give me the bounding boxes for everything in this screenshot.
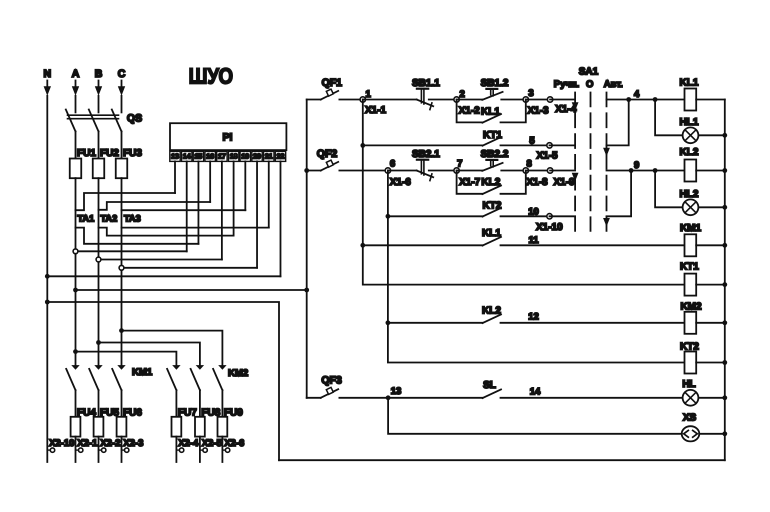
node C tap bbox=[119, 265, 124, 270]
wire: KL2 coil to return bus bbox=[696, 170, 725, 172]
socket XS bbox=[682, 413, 700, 442]
wire: phase B vertical (FU2 to KM1 contact) bbox=[98, 178, 100, 365]
PI terminal 19 bbox=[240, 151, 250, 161]
wire: SB2.2 to node8 bbox=[501, 170, 526, 172]
svg-text:SB2.1: SB2.1 bbox=[412, 149, 440, 160]
svg-text:17: 17 bbox=[218, 154, 226, 161]
svg-text:KM2: KM2 bbox=[680, 301, 702, 312]
fuse FU4 bbox=[71, 408, 97, 437]
junction B branch bbox=[96, 340, 101, 345]
contactor KM1 main contact pole 2 bbox=[89, 365, 103, 417]
svg-text:KM1: KM1 bbox=[132, 367, 153, 378]
time relay coil KT1 bbox=[680, 262, 699, 296]
wire: B to KM2 pole 2 bbox=[99, 343, 200, 366]
node B tap bbox=[96, 257, 101, 262]
svg-text:13: 13 bbox=[171, 154, 179, 161]
svg-text:TA1: TA1 bbox=[78, 213, 95, 223]
svg-text:X1-9: X1-9 bbox=[554, 177, 576, 188]
node A tap bbox=[73, 249, 78, 254]
wire: node13 to SL bbox=[388, 397, 482, 399]
wire: KL1 row left bbox=[363, 244, 483, 246]
svg-text:ШУО: ШУО bbox=[189, 63, 234, 88]
wire: SB1.2 to node3 bbox=[501, 99, 526, 101]
svg-text:SB1.2: SB1.2 bbox=[481, 78, 509, 89]
contactor KM2 main contact pole 1 bbox=[167, 365, 181, 417]
wire: C between QS and FU3 bbox=[121, 131, 123, 158]
junction HL1-bus bbox=[722, 133, 727, 138]
wire: PI terminal 17 drop bbox=[221, 161, 223, 259]
wire: KL2 contact to KM2 coil, node 12 bbox=[501, 322, 685, 324]
lamp HL1 bbox=[680, 117, 699, 143]
wire: node13 drop to XS row bbox=[388, 398, 682, 434]
relay contact KT2 (NO) bbox=[483, 200, 502, 216]
wire: SB2.1 to node7 bbox=[429, 170, 457, 172]
svg-text:FU1: FU1 bbox=[77, 148, 96, 159]
svg-text:X1-8: X1-8 bbox=[527, 177, 549, 188]
wire: C to KM2 pole 3 bbox=[122, 331, 223, 366]
svg-text:18: 18 bbox=[230, 154, 238, 161]
relay contact KT1 (NO) bbox=[483, 130, 503, 146]
junction KT2-bus bbox=[722, 360, 727, 365]
SA1 contact arrow row5 pos3 bbox=[603, 148, 610, 157]
wire: KT2 coil to return bus bbox=[696, 362, 725, 364]
wire: node6 drop to KL2 row bbox=[387, 216, 389, 322]
SA1 contact arrow row10 pos3 bbox=[603, 218, 610, 227]
wire: PI terminal 20 drop bbox=[256, 161, 258, 267]
wire: PI terminal 22 drop bbox=[279, 161, 281, 276]
svg-text:X1-7: X1-7 bbox=[459, 177, 481, 188]
relay contact KL2 self-hold (bypass row 2) bbox=[457, 171, 526, 195]
SA1 position line 3 (Avt) bbox=[606, 93, 608, 231]
SA1 contact arrow row2 pos1 bbox=[572, 173, 579, 182]
SA1 position line 2 (O) bbox=[590, 93, 592, 231]
svg-text:KL2: KL2 bbox=[482, 305, 501, 316]
wire: PI terminal 19 drop bbox=[244, 161, 246, 210]
lamp HL2 bbox=[680, 189, 699, 215]
wire: node2 to SB1.2 bbox=[457, 99, 483, 101]
svg-text:8: 8 bbox=[527, 159, 532, 170]
svg-text:22: 22 bbox=[277, 154, 285, 161]
svg-text:KL1: KL1 bbox=[482, 228, 501, 239]
relay coil KL2 bbox=[680, 147, 699, 181]
svg-text:FU2: FU2 bbox=[100, 148, 119, 159]
junction 9b bbox=[653, 168, 658, 173]
input line A label and arrow bbox=[72, 68, 80, 96]
svg-text:KL1: KL1 bbox=[481, 106, 500, 117]
junction 9a bbox=[629, 168, 634, 173]
SA1 position line 1 (Ruchn) bbox=[574, 93, 576, 231]
node X1-9 bbox=[547, 168, 575, 188]
node 2 / X1-2 bbox=[454, 89, 480, 117]
relay contact KL2 (NO) bbox=[482, 305, 501, 323]
svg-text:7: 7 bbox=[457, 159, 462, 170]
junction HL-bus bbox=[722, 395, 727, 400]
terminal X2-4 bbox=[176, 437, 199, 462]
svg-text:14: 14 bbox=[183, 154, 191, 161]
wire: node6 to SB2.1 bbox=[388, 170, 417, 172]
wire: PI terminal 18 drop bbox=[233, 161, 235, 235]
svg-text:X1-3: X1-3 bbox=[528, 105, 550, 116]
wire: node1 drop to KL1 row bbox=[362, 145, 364, 245]
svg-text:10: 10 bbox=[528, 206, 539, 217]
svg-text:XS: XS bbox=[683, 413, 697, 424]
wire: KL1 contact to KM1 coil, node 11 bbox=[501, 244, 685, 246]
svg-text:A: A bbox=[72, 68, 80, 80]
wire: node8 to X1-9 bbox=[526, 170, 550, 172]
wire: node6 vertical drop bbox=[387, 171, 389, 217]
wire: phase C vertical upper bbox=[121, 96, 123, 113]
svg-text:19: 19 bbox=[241, 154, 249, 161]
node 7 / X1-7 bbox=[454, 159, 481, 188]
wire: SB1.1 to node2 bbox=[429, 99, 457, 101]
PI terminal 21 bbox=[264, 151, 274, 161]
junction HL2-bus bbox=[722, 205, 727, 210]
svg-text:QF2: QF2 bbox=[317, 148, 338, 160]
wire: PI terminal 16 drop bbox=[209, 161, 211, 202]
terminal X2-10 bbox=[47, 438, 74, 452]
svg-text:PI: PI bbox=[223, 131, 233, 143]
svg-text:4: 4 bbox=[634, 89, 640, 100]
contactor coil KM1 bbox=[680, 223, 702, 256]
svg-text:TA2: TA2 bbox=[101, 213, 118, 223]
terminal X2-1 bbox=[76, 437, 99, 462]
wire: N line vertical bbox=[46, 96, 48, 462]
PI terminal 16 bbox=[205, 151, 215, 161]
wire: node3 to X1-4 bbox=[526, 99, 550, 101]
circuit breaker QF1 bbox=[307, 77, 363, 100]
wire: KT1 row left bbox=[363, 144, 483, 146]
svg-text:14: 14 bbox=[530, 387, 541, 398]
junction XS-bus bbox=[722, 431, 727, 436]
svg-text:KL2: KL2 bbox=[481, 177, 500, 188]
svg-text:KM2: KM2 bbox=[228, 368, 248, 379]
input line C label and arrow bbox=[118, 68, 126, 96]
current transformer TA3 secondary bottom (to terminal 21) bbox=[122, 227, 269, 229]
wire: KT1 coil to return bus bbox=[696, 284, 725, 286]
svg-text:HL1: HL1 bbox=[680, 117, 699, 128]
current transformer TA2 secondary bottom (to terminal 18) bbox=[99, 228, 234, 236]
svg-text:SB2.2: SB2.2 bbox=[481, 149, 509, 160]
svg-text:9: 9 bbox=[634, 160, 639, 171]
svg-text:N: N bbox=[44, 68, 52, 80]
contactor KM2 main contact pole 3 bbox=[213, 365, 227, 417]
terminal X2-2 bbox=[99, 437, 121, 462]
wire: B voltage tap to terminal 17 bbox=[99, 259, 222, 261]
svg-text:KT1: KT1 bbox=[680, 262, 699, 273]
pushbutton SB1.1 (NC stop) bbox=[412, 78, 440, 110]
fuse FU8 bbox=[195, 408, 221, 437]
svg-text:FU9: FU9 bbox=[224, 408, 243, 419]
wire: X1-9 to SA1 bbox=[550, 170, 575, 172]
node 10 / X1-10 bbox=[528, 206, 563, 233]
pushbutton SB2.2 (NO start) bbox=[481, 149, 509, 171]
pushbutton SB1.2 (NO start) bbox=[481, 78, 509, 100]
wire: KM1 coil to return bus bbox=[696, 244, 725, 246]
pushbutton SB2.1 (NC stop) bbox=[412, 149, 440, 181]
PI terminal 17 bbox=[217, 151, 227, 161]
disconnect switch QS (3-pole) bbox=[66, 110, 142, 132]
svg-text:X1-10: X1-10 bbox=[536, 222, 563, 233]
time relay coil KT2 bbox=[680, 341, 699, 373]
PI terminal 18 bbox=[228, 151, 238, 161]
wire: A voltage tap to terminal 14 bbox=[76, 250, 187, 252]
junction node1-KT1 row bbox=[360, 143, 365, 148]
relay contact KL1 (NO) bbox=[482, 228, 501, 246]
svg-text:KT1: KT1 bbox=[483, 130, 502, 141]
svg-text:12: 12 bbox=[528, 311, 539, 322]
wire: KL1 coil to return bus bbox=[696, 99, 725, 101]
svg-text:5: 5 bbox=[529, 135, 535, 146]
svg-text:C: C bbox=[118, 68, 126, 80]
wire: X1-4 to SA1 bbox=[550, 99, 575, 101]
wire: SA1 row9-row10 link bbox=[607, 171, 632, 217]
svg-text:15: 15 bbox=[195, 154, 203, 161]
wire: phase A vertical upper (arrow to QS) bbox=[75, 96, 77, 113]
wire: bottom neutral rail bbox=[279, 459, 725, 461]
svg-text:Авт.: Авт. bbox=[604, 79, 623, 90]
wire: SL to HL lamp, node 14 bbox=[501, 397, 683, 399]
svg-text:16: 16 bbox=[206, 154, 214, 161]
terminal X2-5 bbox=[200, 437, 223, 462]
svg-text:Ручн.: Ручн. bbox=[554, 79, 580, 90]
contactor KM1 main contact pole 1 bbox=[66, 365, 80, 417]
junction bus-QF2 bbox=[304, 168, 309, 173]
contactor KM1 main contact pole 3 bbox=[112, 365, 126, 417]
svg-text:HL: HL bbox=[682, 379, 695, 390]
svg-text:KM1: KM1 bbox=[680, 223, 702, 234]
svg-text:FU6: FU6 bbox=[123, 408, 142, 419]
wire: PI terminal 13 drop bbox=[174, 161, 176, 193]
svg-text:X1-6: X1-6 bbox=[390, 177, 412, 188]
wire: HL1 to return bus bbox=[698, 134, 724, 136]
wire: A to KM2 pole 1 bbox=[76, 352, 177, 366]
contactor coil KM2 bbox=[680, 301, 702, 333]
fuse FU5 bbox=[94, 408, 120, 437]
wire: N bus to terminal 22 bbox=[47, 275, 280, 277]
svg-text:TA3: TA3 bbox=[124, 213, 141, 223]
svg-text:QF1: QF1 bbox=[322, 77, 343, 89]
limit switch contact SL bbox=[483, 380, 502, 398]
lamp HL bbox=[682, 379, 698, 405]
wire: return bus vertical bbox=[724, 100, 726, 461]
junction KL1 row bbox=[360, 243, 365, 248]
wire: phase A feed to control bus bbox=[76, 289, 307, 291]
svg-text:HL2: HL2 bbox=[680, 189, 699, 200]
selector switch SA1 labels bbox=[554, 67, 623, 91]
circuit breaker QF3 bbox=[307, 375, 388, 398]
junction N-loop bbox=[45, 300, 50, 305]
wire: node5 to SA1 bbox=[550, 144, 576, 146]
contactor KM2 main contact pole 2 bbox=[191, 365, 205, 417]
wire: KT1 contact to node 5 bbox=[501, 144, 550, 146]
junction 4b bbox=[653, 97, 658, 102]
SA1 contact arrow row1 pos1 bbox=[572, 102, 579, 111]
junction control bus feed bbox=[304, 288, 309, 293]
current transformer TA2 secondary top (to terminal 16) bbox=[99, 202, 211, 210]
svg-text:1: 1 bbox=[366, 89, 372, 100]
svg-text:13: 13 bbox=[391, 386, 402, 397]
current transformer TA1 secondary top (to terminal 13) bbox=[76, 193, 176, 210]
junction 4a bbox=[626, 97, 631, 102]
relay contact KL1 self-hold (bypass row 1) bbox=[457, 100, 526, 123]
junction C branch bbox=[119, 328, 124, 333]
svg-text:KL1: KL1 bbox=[680, 78, 699, 89]
wire: HL to return bus bbox=[698, 397, 724, 399]
meter PI box bbox=[170, 123, 286, 150]
PI terminal 20 bbox=[252, 151, 262, 161]
svg-text:B: B bbox=[95, 68, 103, 80]
input line N label and arrow bbox=[44, 68, 52, 96]
node 3 / X1-3 bbox=[523, 88, 549, 116]
wire: HL1 branch bbox=[655, 100, 683, 136]
svg-text:QF3: QF3 bbox=[321, 375, 342, 387]
svg-text:21: 21 bbox=[265, 154, 273, 161]
fuse FU7 bbox=[172, 408, 198, 437]
svg-text:11: 11 bbox=[528, 235, 539, 246]
wire: SA1 row4-row5 link bbox=[607, 100, 629, 146]
wire: SA1 to KL1 coil (node 4 row) bbox=[607, 99, 685, 101]
wire: phase B vertical upper bbox=[98, 96, 100, 113]
wire: C voltage tap to terminal 20 bbox=[122, 267, 258, 269]
wire: KL2 row drop to KT2 coil row bbox=[388, 323, 685, 363]
fuse FU9 bbox=[218, 408, 244, 437]
svg-text:QS: QS bbox=[127, 112, 142, 124]
node 13 bbox=[386, 386, 402, 400]
fuse FU2 bbox=[93, 148, 120, 178]
wire: PI terminal 15 drop bbox=[197, 161, 199, 243]
svg-text:SB1.1: SB1.1 bbox=[412, 78, 440, 89]
svg-text:X1-2: X1-2 bbox=[459, 105, 481, 116]
terminal X2-6 bbox=[222, 437, 244, 462]
fuse FU1 bbox=[70, 148, 97, 178]
wire: A between QS and FU1 bbox=[75, 131, 77, 158]
wire: KL1 row drop to KT1 coil row bbox=[363, 245, 685, 284]
fuse FU3 bbox=[116, 148, 143, 178]
wire: KL2 row left bbox=[388, 322, 483, 324]
svg-text:О: О bbox=[586, 79, 593, 90]
terminal X2-3 bbox=[122, 437, 144, 462]
node 6 / X1-6 bbox=[385, 159, 411, 188]
junction node6-KT2 row bbox=[386, 214, 391, 219]
wire: node1 vertical drop bbox=[362, 100, 364, 146]
node 5 / X1-5 bbox=[529, 135, 558, 161]
current transformer TA1 secondary bottom (to terminal 15) bbox=[76, 228, 199, 244]
PI terminal 22 bbox=[275, 151, 285, 161]
junction KL2 row bbox=[386, 320, 391, 325]
current transformer TA3 secondary top (to terminal 19) bbox=[122, 209, 246, 211]
node 1 / X1-1 bbox=[360, 89, 386, 116]
input line B label and arrow bbox=[95, 68, 103, 96]
node X1-4 bbox=[547, 97, 576, 115]
fuse FU6 bbox=[117, 408, 143, 437]
PI terminal 15 bbox=[193, 151, 203, 161]
svg-text:20: 20 bbox=[253, 154, 261, 161]
wire: phase C vertical (FU3 to KM1 contact) bbox=[121, 178, 123, 365]
PI terminal 14 bbox=[182, 151, 192, 161]
svg-text:X1-5: X1-5 bbox=[537, 151, 559, 162]
wire: XS to return bus bbox=[699, 433, 725, 435]
junction KL2-bus bbox=[722, 168, 727, 173]
junction A branch bbox=[73, 349, 78, 354]
svg-text:KT2: KT2 bbox=[680, 341, 699, 352]
svg-text:FU3: FU3 bbox=[123, 148, 142, 159]
wire: B between QS and FU2 bbox=[98, 131, 100, 158]
PI terminal 13 bbox=[170, 151, 180, 161]
node 8 / X1-8 bbox=[523, 159, 548, 188]
wire: HL2 branch bbox=[655, 171, 683, 208]
junction A-control bbox=[73, 288, 78, 293]
wire: node7 to SB2.2 bbox=[457, 170, 483, 172]
svg-text:6: 6 bbox=[390, 159, 395, 170]
svg-text:KT2: KT2 bbox=[483, 200, 502, 211]
wire: PI terminal 21 drop bbox=[268, 161, 270, 227]
wire: phase A vertical (FU1 to KM1 contact) bbox=[75, 178, 77, 365]
wire: node10 to SA1 bbox=[550, 215, 576, 217]
wire: node1 to SB1.1 bbox=[363, 99, 417, 101]
junction KT1-bus bbox=[722, 282, 727, 287]
relay coil KL1 bbox=[680, 78, 699, 111]
wire: control supply bus vertical bbox=[306, 100, 308, 398]
wire: N to neutral loop bbox=[47, 302, 279, 460]
svg-text:2: 2 bbox=[459, 89, 464, 100]
junction KM1-bus bbox=[722, 243, 727, 248]
wire: PI terminal 14 drop bbox=[186, 161, 188, 251]
svg-text:SA1: SA1 bbox=[579, 67, 599, 78]
junction N-22 bbox=[45, 274, 50, 279]
svg-text:SL: SL bbox=[483, 380, 496, 391]
junction KM2-bus bbox=[722, 320, 727, 325]
wire: KT2 row left bbox=[388, 215, 483, 217]
svg-text:X1-1: X1-1 bbox=[365, 105, 387, 116]
wire: HL2 to return bus bbox=[698, 206, 724, 208]
wire: KT2 contact to node 10 bbox=[501, 215, 550, 217]
svg-text:3: 3 bbox=[528, 88, 533, 99]
svg-text:KL2: KL2 bbox=[680, 147, 699, 158]
circuit breaker QF2 bbox=[307, 148, 388, 170]
wire: SA1 to KL2 coil (node 9 row) bbox=[607, 170, 685, 172]
wire: KM2 coil to return bus bbox=[696, 322, 725, 324]
